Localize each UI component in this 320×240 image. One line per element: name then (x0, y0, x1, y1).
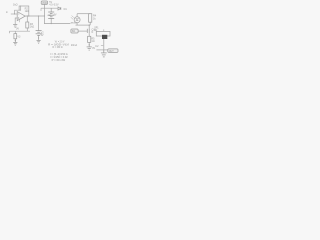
resistor R5 (88, 36, 91, 42)
wire probe tick (101, 45, 103, 47)
op-amp U1 (17, 12, 25, 21)
wire op-amp output (25, 15, 44, 17)
battery B1 (50, 8, 52, 12)
node V2 bottom (38, 37, 39, 38)
speaker dark element (102, 35, 107, 39)
svg-text:20mA: 20mA (71, 44, 78, 47)
wire LED loop top (77, 13, 90, 15)
node feedback junction (28, 15, 29, 16)
resistor R2 (feedback) (19, 6, 21, 10)
wire rail left stub (40, 8, 42, 11)
svg-text:1kΩ: 1kΩ (25, 10, 30, 13)
net label box VDD (41, 1, 47, 4)
ground under op-amp input (13, 25, 17, 28)
svg-text:N: N (92, 31, 94, 34)
svg-text:1kΩ: 1kΩ (13, 3, 18, 6)
svg-text:1Ω: 1Ω (91, 40, 94, 43)
wire gate (78, 30, 87, 32)
node current probe (89, 44, 90, 45)
net label box OUT (108, 49, 118, 53)
svg-text:9V: 9V (54, 13, 57, 16)
node drain junction (89, 25, 90, 26)
wire feedback to input (15, 10, 20, 14)
svg-text:1kΩ: 1kΩ (30, 26, 35, 29)
svg-text:VDD: VDD (42, 2, 47, 5)
resistor R4 (89, 14, 92, 23)
svg-text:P = 60 mW: P = 60 mW (52, 58, 66, 62)
node input junction (14, 13, 15, 14)
ground under V3 (13, 39, 17, 45)
op-amp supply stub (19, 19, 21, 22)
ground under R5 (87, 47, 92, 50)
node output-R3 junction (27, 15, 28, 16)
wire feedback top (20, 6, 29, 16)
svg-text:0V: 0V (16, 27, 19, 30)
node V3 bottom (15, 40, 16, 41)
svg-text:4.5–5.5V: 4.5–5.5V (49, 4, 59, 6)
speaker SP1 (96, 31, 110, 36)
svg-text:R = 150 Ω: R = 150 Ω (53, 45, 63, 49)
wire input (11, 13, 17, 15)
wire LED loop bottom (76, 24, 91, 26)
ground under speaker (101, 50, 107, 57)
LED rays (71, 16, 74, 20)
net label box gate input (71, 29, 78, 33)
node output-V2 junction (38, 15, 39, 16)
LED D2 (76, 14, 78, 17)
node VDD drop crossing (44, 15, 45, 16)
svg-text:OUT: OUT (109, 50, 115, 53)
node battery bottom junction (51, 23, 52, 24)
source V3 (14, 31, 16, 33)
wire lower-left rail (10, 31, 30, 33)
wire speaker top stub (103, 29, 105, 31)
wire VDD drop to LED rail (44, 8, 70, 23)
ground under V2 (37, 40, 41, 43)
transistor Q1 (88, 25, 90, 28)
wire VDD stem (43, 4, 45, 8)
wire VDD rail (41, 7, 58, 9)
wire R5 to ground (88, 42, 90, 46)
wire speaker down (103, 39, 105, 50)
wire noninverting input (15, 18, 17, 24)
source V2 (38, 16, 40, 31)
diode D1 (58, 7, 61, 10)
op-amp input polarity marks (18, 14, 19, 19)
svg-text:5V: 5V (41, 34, 44, 37)
wire speaker bottom (96, 49, 107, 51)
resistor R3 (26, 16, 28, 22)
svg-text:0V: 0V (92, 48, 95, 50)
